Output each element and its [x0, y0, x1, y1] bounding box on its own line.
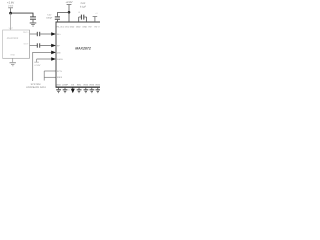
bottom stub RO1 [78, 87, 80, 89]
ground bottom 6 [96, 89, 101, 93]
wire to RF- [40, 45, 51, 47]
bottom stub RO3 [91, 87, 93, 89]
pin labels bottom row [56, 84, 101, 87]
svg-text:OUT-: OUT- [24, 43, 29, 46]
wire branch to C4 [57, 13, 69, 17]
capacitor C4 bypass [55, 16, 60, 22]
wire supply rail to C1 [11, 13, 33, 16]
ground bottom 1 [56, 89, 61, 93]
svg-text:DIN: DIN [57, 51, 61, 54]
arrowhead CS output down [71, 87, 75, 93]
arrowhead into pin SHDN [51, 57, 56, 61]
svg-text:GND: GND [56, 84, 61, 87]
svg-text:SHDN: SHDN [57, 58, 63, 61]
svg-text:GND: GND [76, 26, 81, 29]
supply +2.8V top-middle label [65, 1, 72, 12]
node B junction dot [68, 11, 71, 14]
bottom stub LOOP pin [64, 87, 66, 89]
svg-text:GND: GND [10, 53, 15, 56]
arrowhead into pin 3 [51, 51, 56, 55]
svg-text:100pF: 100pF [46, 16, 53, 19]
svg-text:PCTL: PCTL [57, 70, 63, 73]
wire SHDN row [37, 58, 52, 60]
svg-text:LOOPBACK DATA: LOOPBACK DATA [26, 86, 46, 89]
svg-text:RF-: RF- [57, 44, 61, 47]
op-amp U1 MAX2606 VCO box [3, 30, 30, 58]
svg-text:+2.8V: +2.8V [34, 64, 41, 67]
U2 top edge emphasized [56, 21, 100, 23]
bottom stub GND pin 1 [58, 87, 60, 89]
capacitor C5 bridge between GND pins [79, 15, 87, 22]
svg-text:0.1µF: 0.1µF [80, 5, 87, 8]
wire GND stub [12, 58, 14, 62]
ground bottom 3 [77, 89, 82, 93]
ground bottom 4 [84, 89, 89, 93]
svg-text:OUT+: OUT+ [23, 31, 29, 34]
wire data line to pin 3 [33, 52, 52, 81]
capacitor C1 bypass [30, 16, 36, 22]
ground under U1 [10, 62, 16, 66]
supply stub top-right [93, 12, 99, 22]
wire loopback fork vertical [43, 71, 45, 81]
svg-text:(+3V): (+3V) [8, 5, 14, 8]
wire VCC down to U1 [10, 13, 12, 30]
C4 value label [46, 13, 53, 19]
svg-text:RO4: RO4 [96, 84, 100, 87]
wire node B down to VCC pin [68, 12, 70, 22]
IC U2 MAX2872 box [56, 22, 102, 87]
supply +2.8V at SHDN [34, 59, 41, 67]
U2 bottom edge emphasized [56, 86, 100, 88]
svg-text:PA_VCC VCC GND: PA_VCC VCC GND [57, 26, 75, 29]
arrowhead into pin RF- [51, 44, 56, 48]
pin labels top row [57, 26, 101, 29]
bottom stub RO4 [97, 87, 99, 89]
svg-text:LOOP: LOOP [62, 84, 68, 87]
svg-text:+2.8V: +2.8V [65, 1, 72, 4]
wire OUT- row [30, 45, 37, 47]
ground bottom 2 [63, 89, 68, 93]
capacitor C3 coupling [37, 43, 40, 47]
svg-text:GND: GND [83, 26, 88, 29]
svg-text:MAX2606: MAX2606 [7, 37, 19, 40]
svg-text:FREF: FREF [57, 76, 63, 79]
wire into pin FREF [44, 76, 56, 78]
svg-text:VCC: VCC [9, 27, 14, 30]
ground under C1 [30, 23, 37, 27]
capacitor C2 coupling [37, 32, 40, 36]
capacitor C5 bridge label [78, 2, 87, 14]
node SYSTEM LOOPBACK DATA label [26, 83, 46, 89]
wire OUT+ row [30, 33, 37, 35]
supply +2.8V top-left label [7, 2, 14, 12]
arrowhead into pin RF+ [51, 32, 56, 36]
svg-text:MAX2872: MAX2872 [75, 46, 91, 50]
ground bottom 5 [90, 89, 95, 93]
svg-text:25: 25 [68, 89, 70, 92]
bottom stub RO2 [85, 87, 87, 89]
svg-text:+2.8V: +2.8V [7, 2, 14, 5]
pin labels left column [57, 33, 63, 79]
node A junction dot [9, 12, 12, 15]
wire to RF+ [40, 33, 51, 35]
svg-text:10: 10 [78, 11, 80, 14]
wire into pin PCTL [44, 70, 56, 72]
